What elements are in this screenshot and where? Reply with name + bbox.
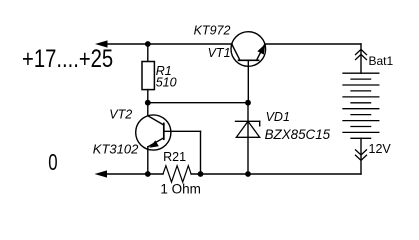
svg-text:VT1: VT1 [208, 46, 231, 60]
wire [147, 90, 149, 103]
wire [360, 138, 362, 174]
node E junction dot [198, 171, 204, 177]
resistor R1 [142, 62, 154, 90]
transistor VT1 [231, 32, 266, 103]
node +V input arrow [95, 40, 108, 47]
battery Bat1 positive-direction arrow [356, 49, 367, 59]
wire [265, 43, 361, 45]
svg-text:510: 510 [156, 76, 177, 90]
wire [106, 43, 232, 45]
svg-text:1 Ohm: 1 Ohm [160, 182, 201, 197]
transistor VT2 [136, 103, 201, 174]
wire [148, 102, 248, 104]
svg-text:R21: R21 [163, 150, 186, 164]
svg-text:KT3102: KT3102 [93, 142, 139, 157]
svg-text:+17....+25: +17....+25 [22, 44, 113, 73]
svg-text:VD1: VD1 [266, 110, 290, 124]
node C junction dot [245, 100, 251, 106]
resistor R21 [163, 166, 191, 182]
zener diode VD1 [236, 103, 260, 174]
battery Bat1 [343, 73, 379, 138]
svg-text:BZX85C15: BZX85C15 [265, 127, 331, 142]
node F junction dot [245, 171, 251, 177]
svg-text:VT2: VT2 [109, 108, 132, 122]
svg-text:12V: 12V [369, 142, 392, 156]
wire [106, 173, 163, 175]
wire [191, 173, 361, 175]
node D junction dot [145, 171, 151, 177]
node B junction dot [145, 100, 151, 106]
svg-text:0: 0 [48, 150, 57, 175]
svg-text:KT972: KT972 [194, 23, 231, 37]
battery 12V output arrow [356, 150, 367, 161]
wire [147, 44, 149, 62]
wire [360, 44, 362, 73]
node 0V output arrow [95, 170, 108, 177]
node A junction dot [145, 41, 151, 47]
svg-text:Bat1: Bat1 [369, 54, 394, 68]
